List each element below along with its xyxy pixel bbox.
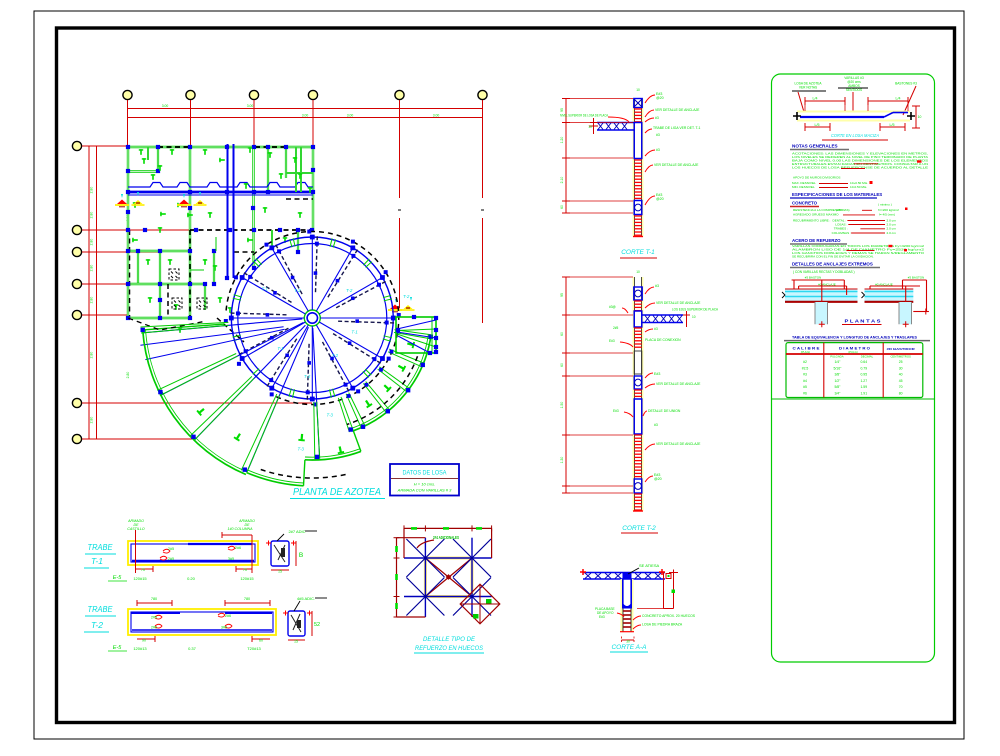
- svg-text:1.27: 1.27: [860, 379, 867, 383]
- dashed walls: [130, 147, 314, 342]
- svg-text:95: 95: [560, 293, 564, 297]
- svg-text:#D BASTIDOR: #D BASTIDOR: [887, 347, 916, 351]
- svg-text:#3: #3: [655, 116, 659, 120]
- svg-text:80: 80: [899, 392, 903, 396]
- svg-text:T-2: T-2: [304, 374, 311, 379]
- concreto heading: [790, 201, 819, 207]
- dashed ring: [226, 232, 399, 405]
- corte T-1 left beam: [588, 118, 633, 134]
- svg-text:40: 40: [899, 373, 903, 377]
- left vertical red dimension lines: [86, 146, 130, 439]
- svg-text:E-5: E-5: [113, 575, 123, 581]
- svg-text:780: 780: [244, 597, 250, 601]
- svg-text:DETALLES DE ANCLAJES EXTREM: DETALLES DE ANCLAJES EXTREMOS: [792, 262, 873, 267]
- svg-text:TABLA DE EQUIVALENCIA Y LONGIT: TABLA DE EQUIVALENCIA Y LONGITUD DE ANCL…: [792, 336, 917, 340]
- corte A-A column below: [620, 579, 634, 632]
- svg-text:#3: #3: [654, 423, 658, 427]
- svg-text:DECIMAL: DECIMAL: [861, 354, 874, 358]
- svg-text:CORTE A-A: CORTE A-A: [611, 644, 646, 651]
- level marker yellow A: [132, 192, 145, 205]
- notes panel border: [772, 74, 935, 662]
- svg-text:T-1: T-1: [277, 346, 284, 351]
- svg-text:3/4": 3/4": [834, 392, 841, 396]
- svg-text:120#15: 120#15: [133, 576, 147, 581]
- level marker yellow C: [402, 297, 415, 310]
- level marker yellow B: [194, 192, 207, 205]
- red horizontal grid lines left: [82, 146, 312, 439]
- svg-text:f'c=200 kg/cm2: f'c=200 kg/cm2: [878, 208, 899, 212]
- svg-text:DETALLE DE UNION: DETALLE DE UNION: [648, 409, 681, 413]
- terrace green T marks: [196, 340, 415, 454]
- equivalence table: [772, 343, 935, 399]
- svg-text:SE RECUBRIRA CON EL FIN DE EVI: SE RECUBRIRA CON EL FIN DE EVITAR LA OXI…: [792, 254, 874, 258]
- svg-text:5/16": 5/16": [833, 366, 842, 370]
- svg-text:#3 BASTON: #3 BASTON: [805, 276, 821, 280]
- svg-text:#2.5: #2.5: [802, 366, 809, 370]
- acero heading: [790, 238, 847, 244]
- svg-text:CORTE EN LOSA MACIZA: CORTE EN LOSA MACIZA: [831, 133, 879, 138]
- green beam mark symbols in plan: [132, 147, 312, 333]
- svg-text:VER DETALLE DE ANCLAJE: VER DETALLE DE ANCLAJE: [656, 382, 701, 386]
- svg-text:3#5: 3#5: [228, 557, 234, 561]
- svg-text:1.91: 1.91: [860, 392, 867, 396]
- svg-text:60: 60: [560, 332, 564, 336]
- svg-text:4#5 ADIC.: 4#5 ADIC.: [297, 596, 315, 601]
- svg-text:T-2: T-2: [346, 288, 353, 293]
- svg-text:#5: #5: [803, 385, 807, 389]
- svg-text:2.80: 2.80: [90, 265, 94, 272]
- svg-text:CONCRETO: CONCRETO: [792, 201, 818, 206]
- plantas caption: [842, 319, 882, 325]
- corte T-2 title: [621, 525, 658, 533]
- svg-text:L/4: L/4: [896, 97, 901, 101]
- svg-text:10: 10: [918, 115, 922, 119]
- svg-text:TRABE: TRABE: [88, 604, 113, 614]
- corte A-A title: [610, 644, 648, 652]
- trabe T-1 axes and labels: [108, 519, 255, 581]
- svg-text:E-5: E-5: [113, 645, 123, 651]
- svg-text:2#5: 2#5: [168, 547, 174, 551]
- svg-text:52: 52: [314, 622, 320, 628]
- beam detail TRABE T-1 label: [84, 542, 116, 568]
- svg-text:#3 BASTON: #3 BASTON: [908, 276, 924, 280]
- svg-text:@20: @20: [656, 197, 664, 201]
- terrace radial step lines: [141, 322, 434, 472]
- section corte T-2 column: [633, 277, 643, 511]
- svg-text:30: 30: [899, 366, 903, 370]
- svg-text:95: 95: [560, 108, 564, 112]
- terrace fan outer boundary: [128, 318, 431, 486]
- column grid bubbles left column: [72, 141, 81, 443]
- svg-text:VER DETALLE DE ANCLAJE: VER DETALLE DE ANCLAJE: [656, 442, 701, 446]
- svg-text:VER DETALLE DE ANCLAJE: VER DETALLE DE ANCLAJE: [655, 108, 700, 112]
- svg-text:@20: @20: [654, 477, 662, 481]
- svg-text:TRABE: TRABE: [88, 542, 113, 552]
- svg-text:60: 60: [560, 363, 564, 367]
- svg-text:LOS EJES SUPERIOR DE PLACA: LOS EJES SUPERIOR DE PLACA: [672, 308, 719, 312]
- svg-text:T-2: T-2: [403, 294, 410, 299]
- svg-text:#4: #4: [803, 379, 807, 383]
- svg-text:780: 780: [151, 597, 157, 601]
- svg-text:E#3: E#3: [654, 372, 660, 376]
- svg-text:CENTIMETROS: CENTIMETROS: [891, 354, 911, 358]
- svg-text:PLACA DE CONEXION: PLACA DE CONEXION: [645, 338, 681, 342]
- interior walls: [128, 147, 298, 318]
- svg-text:VER DETALLE DE ANCLAJE: VER DETALLE DE ANCLAJE: [654, 163, 699, 167]
- level marker red B: [177, 194, 191, 207]
- svg-text:25: 25: [899, 360, 903, 364]
- corte T-1 labels: [560, 88, 701, 205]
- svg-text:L/5: L/5: [890, 123, 895, 127]
- svg-text:2.10: 2.10: [560, 177, 564, 184]
- stair radial spokes: [224, 230, 401, 407]
- svg-text:10: 10: [636, 270, 640, 274]
- extra wall stubs: [148, 147, 313, 270]
- svg-text:#3: #3: [656, 148, 660, 152]
- trabe T-2 beam body: [128, 609, 276, 635]
- svg-text:2.80: 2.80: [126, 372, 130, 379]
- svg-text:2#7 ADIC: 2#7 ADIC: [288, 529, 305, 534]
- svg-text:2#5: 2#5: [151, 616, 157, 620]
- svg-text:T-2: T-2: [332, 353, 339, 358]
- svg-text:E#3: E#3: [613, 409, 619, 413]
- trabe T-2 dims and labels: [108, 597, 270, 651]
- stair center hub: [304, 310, 320, 326]
- svg-text:#6: #6: [803, 392, 807, 396]
- level marker red C: [388, 299, 402, 312]
- min dimension lines: [792, 181, 873, 189]
- svg-text:ARMADA CON VARILLAS # 3: ARMADA CON VARILLAS # 3: [397, 488, 452, 493]
- svg-text:3#5: 3#5: [221, 626, 227, 630]
- svg-text:E#3: E#3: [599, 615, 605, 619]
- corte T-1 left dimensions: [560, 99, 633, 214]
- svg-text:T-2: T-2: [294, 288, 301, 293]
- blue node squares: [126, 145, 315, 320]
- svg-text:PLANTA DE AZOTEA: PLANTA DE AZOTEA: [293, 487, 381, 498]
- svg-text:120#15: 120#15: [240, 576, 254, 581]
- svg-text:T-3: T-3: [327, 413, 334, 418]
- corte A-A beam: [580, 569, 665, 579]
- svg-text:15: 15: [294, 640, 298, 644]
- svg-text:3.00: 3.00: [347, 114, 354, 118]
- svg-text:10: 10: [588, 125, 592, 129]
- corte A-A dimensions: [622, 570, 679, 644]
- svg-text:#2: #2: [803, 360, 807, 364]
- svg-text:10: 10: [636, 88, 640, 92]
- svg-text:PULGADA: PULGADA: [830, 354, 844, 358]
- svg-text:SENTIDOS: SENTIDOS: [846, 88, 862, 92]
- green dimension texts on top grid lines: [162, 104, 440, 118]
- svg-text:2.80: 2.80: [90, 187, 94, 194]
- notas generales heading: [790, 144, 849, 150]
- concreto spec lines: [793, 203, 908, 235]
- svg-text:70: 70: [243, 568, 247, 572]
- svg-text:2#6: 2#6: [225, 614, 231, 618]
- table title: [784, 336, 930, 341]
- corte T-2 right beam: [643, 311, 696, 327]
- plan title PLANTA DE AZOTEA: [290, 487, 385, 499]
- svg-text:0.79: 0.79: [860, 366, 867, 370]
- trabe T-1 beam body: [128, 541, 258, 565]
- svg-text:REFUERZO EN HUECOS: REFUERZO EN HUECOS: [415, 646, 483, 652]
- column grid bubbles top row: [123, 90, 487, 99]
- section corte T-1 column: [633, 99, 643, 237]
- svg-text:1.59: 1.59: [860, 385, 867, 389]
- svg-text:SE ATIESA: SE ATIESA: [639, 563, 659, 568]
- svg-text:70: 70: [899, 385, 903, 389]
- svg-text:CORTE T-1: CORTE T-1: [621, 249, 655, 256]
- svg-text:CONCRETO APROX. 20 HUECOS: CONCRETO APROX. 20 HUECOS: [642, 614, 696, 618]
- svg-text:60: 60: [259, 639, 263, 643]
- svg-text:f= 4/5 (mm): f= 4/5 (mm): [879, 213, 895, 217]
- svg-text:2.80: 2.80: [90, 417, 94, 424]
- trabe T-2 cross section: [283, 596, 327, 644]
- svg-text:COLUMNAS :: COLUMNAS :: [832, 231, 851, 235]
- building perimeter walls: [128, 147, 313, 318]
- spiral stair outer rings: [231, 237, 393, 399]
- svg-text:120#13: 120#13: [133, 646, 147, 651]
- svg-text:1/4": 1/4": [834, 360, 841, 364]
- svg-text:2.80: 2.80: [90, 212, 94, 219]
- svg-text:T-3: T-3: [298, 447, 305, 452]
- svg-text:0.95: 0.95: [860, 373, 867, 377]
- svg-text:45: 45: [899, 379, 903, 383]
- svg-text:60: 60: [560, 205, 564, 209]
- svg-text:( minimo ): ( minimo ): [878, 203, 892, 207]
- svg-text:B: B: [299, 552, 303, 559]
- svg-text:#3: #3: [656, 133, 660, 137]
- svg-text:T-1: T-1: [351, 329, 358, 334]
- svg-text:#3: #3: [803, 373, 807, 377]
- svg-text:0.20: 0.20: [187, 576, 196, 581]
- svg-text:RECUBRIMIENTO LIBRE :: RECUBRIMIENTO LIBRE :: [793, 218, 831, 222]
- svg-text:1.20: 1.20: [560, 137, 564, 144]
- svg-text:0.64: 0.64: [860, 360, 867, 364]
- corte T-1 title: [620, 249, 657, 258]
- extended spokes into terrace: [140, 319, 319, 473]
- svg-text:T20#13: T20#13: [247, 646, 261, 651]
- dashed arcs in terrace: [258, 356, 418, 478]
- svg-text:2.80: 2.80: [90, 239, 94, 246]
- detalle refuerzo en huecos: [394, 525, 500, 623]
- svg-text:3.00: 3.00: [162, 104, 169, 108]
- svg-text:E#3: E#3: [609, 339, 615, 343]
- svg-text:3.00: 3.00: [302, 114, 309, 118]
- svg-text:@20: @20: [656, 96, 664, 100]
- svg-text:(28 DIAS): (28 DIAS): [836, 208, 850, 212]
- svg-text:MIN. DESNIVEL: MIN. DESNIVEL: [792, 185, 815, 189]
- svg-text:DETALLE TIPO DE: DETALLE TIPO DE: [423, 637, 476, 643]
- svg-text:0.37: 0.37: [188, 646, 197, 651]
- svg-text:#3: #3: [655, 284, 659, 288]
- corte A-A labels: [595, 563, 696, 629]
- svg-text:3/8": 3/8": [834, 373, 841, 377]
- svg-text:3.00: 3.00: [433, 114, 440, 118]
- svg-text:LOSA DE PIEDRA BRAZA: LOSA DE PIEDRA BRAZA: [642, 623, 683, 627]
- svg-text:( CON VARILLAS RECTAS Y DOBLAD: ( CON VARILLAS RECTAS Y DOBLADAS ): [793, 270, 855, 274]
- svg-text:L/4: L/4: [813, 97, 818, 101]
- red horizontal grid/dimension lines top: [128, 105, 483, 121]
- svg-text:#3: #3: [654, 327, 658, 331]
- hatch square symbols: [169, 269, 207, 309]
- svg-text:TRABE DE LIGA VER DET. T-1: TRABE DE LIGA VER DET. T-1: [653, 126, 701, 130]
- notas paragraph: [792, 151, 929, 179]
- anclaje corner detail right: [862, 276, 929, 328]
- svg-text:ESPECIFICACIONES DE LOS MAT: ESPECIFICACIONES DE LOS MATERIALES: [792, 192, 882, 197]
- svg-text:1.50: 1.50: [560, 402, 564, 409]
- svg-text:P L A N T A S: P L A N T A S: [845, 319, 881, 324]
- datos de losa box: [390, 464, 459, 496]
- beam detail TRABE T-2 label: [84, 604, 116, 632]
- svg-text:1.30: 1.30: [560, 457, 564, 464]
- svg-text:L/5: L/5: [815, 123, 820, 127]
- svg-text:2#6: 2#6: [235, 546, 241, 550]
- svg-text:140 COLUMNA: 140 COLUMNA: [228, 527, 254, 531]
- svg-text:(PULG): (PULG): [801, 350, 811, 354]
- svg-text:10-0.50 Mts.: 10-0.50 Mts.: [850, 185, 867, 189]
- corte T-2 labels: [609, 270, 719, 482]
- svg-text:APOYO DE MUROS DIVISORIOS: APOYO DE MUROS DIVISORIOS: [793, 175, 840, 179]
- svg-text:T-1: T-1: [91, 556, 103, 566]
- detalle huecos title: [414, 637, 484, 653]
- svg-text:90: 90: [142, 639, 146, 643]
- svg-text:(PULG): (PULG): [848, 350, 858, 354]
- svg-text:ACERO DE REFUERZO: ACERO DE REFUERZO: [792, 238, 841, 243]
- panel top diagram: [792, 76, 921, 131]
- svg-text:CORTE T-2: CORTE T-2: [622, 525, 656, 532]
- svg-text:T-1: T-1: [262, 287, 269, 292]
- svg-text:2#5: 2#5: [151, 626, 157, 630]
- svg-text:1/2": 1/2": [834, 379, 841, 383]
- especificaciones heading: [790, 192, 882, 198]
- svg-text:15: 15: [278, 570, 282, 574]
- cyan step labels: [262, 287, 410, 452]
- svg-text:DATOS DE LOSA: DATOS DE LOSA: [403, 471, 447, 477]
- svg-text:2#5: 2#5: [613, 326, 619, 330]
- svg-text:2#5: 2#5: [168, 557, 174, 561]
- stair landing right: [396, 315, 438, 355]
- svg-text:VER DETALLE DE ANCLAJE: VER DETALLE DE ANCLAJE: [656, 301, 701, 305]
- level marker red A: [115, 194, 129, 207]
- svg-text:CASTILLO: CASTILLO: [127, 527, 145, 531]
- svg-text:NIVEL SUPERIOR DE LOSA DE PLAC: NIVEL SUPERIOR DE LOSA DE PLACA: [560, 114, 609, 118]
- blue double column line: [228, 144, 234, 278]
- svg-text:NOTAS GENERALES: NOTAS GENERALES: [792, 144, 838, 149]
- svg-text:10: 10: [692, 315, 696, 319]
- svg-text:3.00: 3.00: [247, 104, 254, 108]
- svg-text:70: 70: [141, 568, 145, 572]
- svg-text:2#4 ADICIONALES: 2#4 ADICIONALES: [433, 535, 459, 540]
- blue castellated beam across plan: [128, 183, 313, 196]
- svg-text:2.80: 2.80: [90, 352, 94, 359]
- svg-text:AGREGADO GRUESO MAXIMO: AGREGADO GRUESO MAXIMO: [793, 213, 839, 217]
- svg-text:2.80: 2.80: [90, 297, 94, 304]
- svg-text:#3@: #3@: [609, 305, 616, 309]
- svg-text:H = 10 cms.: H = 10 cms.: [414, 482, 435, 487]
- red vertical grid lines: [128, 100, 485, 323]
- corte en losa caption: [822, 133, 888, 140]
- acero paragraph: [792, 244, 925, 258]
- svg-text:5/8": 5/8": [834, 385, 841, 389]
- svg-text:BASTONES #3: BASTONES #3: [895, 82, 917, 86]
- trabe T-1 cross section: [266, 529, 317, 574]
- detalles de anclajes heading: [790, 262, 880, 268]
- corte T-2 left dimensions: [560, 277, 633, 493]
- svg-text:VER NOTAS: VER NOTAS: [799, 86, 817, 90]
- svg-text:T-2: T-2: [91, 620, 103, 630]
- svg-text:2.0 cm: 2.0 cm: [887, 231, 897, 235]
- anclaje corner detail left: [782, 276, 858, 328]
- svg-text:30: 30: [626, 639, 630, 643]
